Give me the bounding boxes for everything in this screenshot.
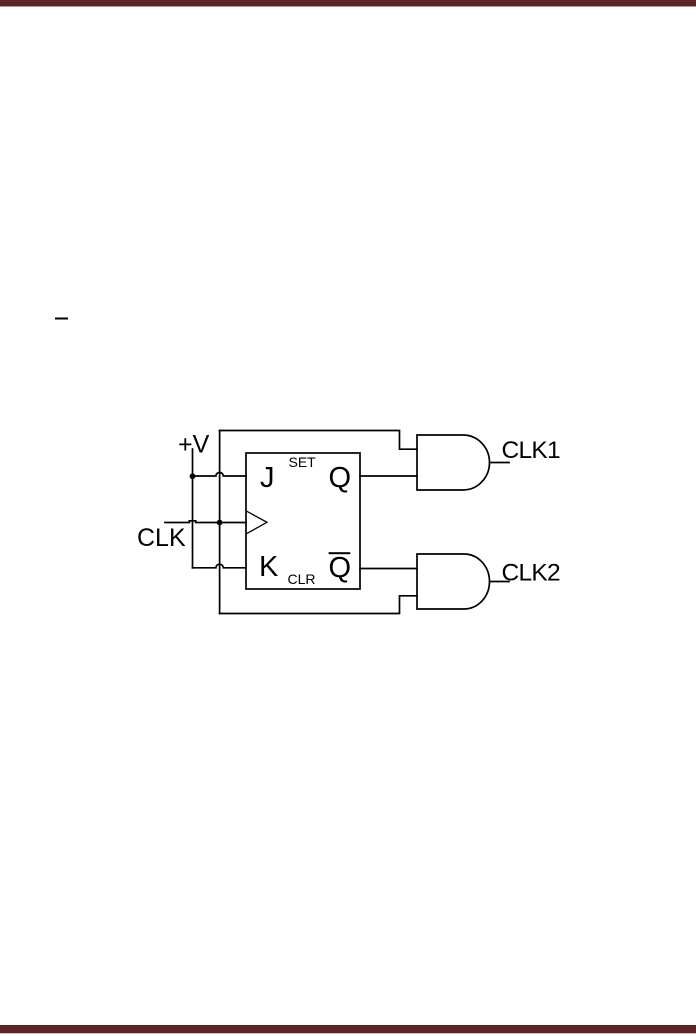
wire Q-bar to AND2 (360, 568, 417, 570)
wire AND1 output (490, 462, 510, 464)
wire vertical CLK branch (219, 431, 221, 614)
horizontal dash mark (55, 318, 68, 320)
wire +V vertical (192, 449, 194, 568)
wire J input (193, 472, 247, 476)
wire K input (193, 564, 247, 568)
svg-text:Q: Q (329, 462, 352, 494)
wire bottom rail to AND2 (220, 596, 417, 614)
junction dot at +V/J wire (190, 473, 196, 479)
svg-text:SET: SET (289, 454, 317, 470)
svg-text:J: J (260, 462, 275, 494)
wire CLK input (165, 521, 246, 523)
AND gate U2 (top) (417, 435, 490, 490)
flip-flop U1 (J-K) box (246, 453, 360, 589)
svg-text:Q: Q (329, 552, 352, 584)
svg-text:CLK1: CLK1 (502, 437, 561, 464)
clock input triangle (247, 511, 267, 533)
svg-text:+V: +V (178, 431, 210, 459)
svg-text:K: K (259, 551, 279, 583)
wire top rail to AND1 (220, 431, 417, 450)
junction dot CLK/vertical (217, 520, 223, 526)
AND gate U3 (bottom) (417, 554, 490, 609)
svg-text:CLK: CLK (137, 524, 186, 552)
Q-bar overline (329, 552, 351, 554)
svg-text:CLK2: CLK2 (502, 559, 561, 586)
wire Q to AND1 (360, 475, 417, 477)
svg-text:CLR: CLR (288, 571, 316, 587)
wire AND2 output (490, 581, 510, 583)
